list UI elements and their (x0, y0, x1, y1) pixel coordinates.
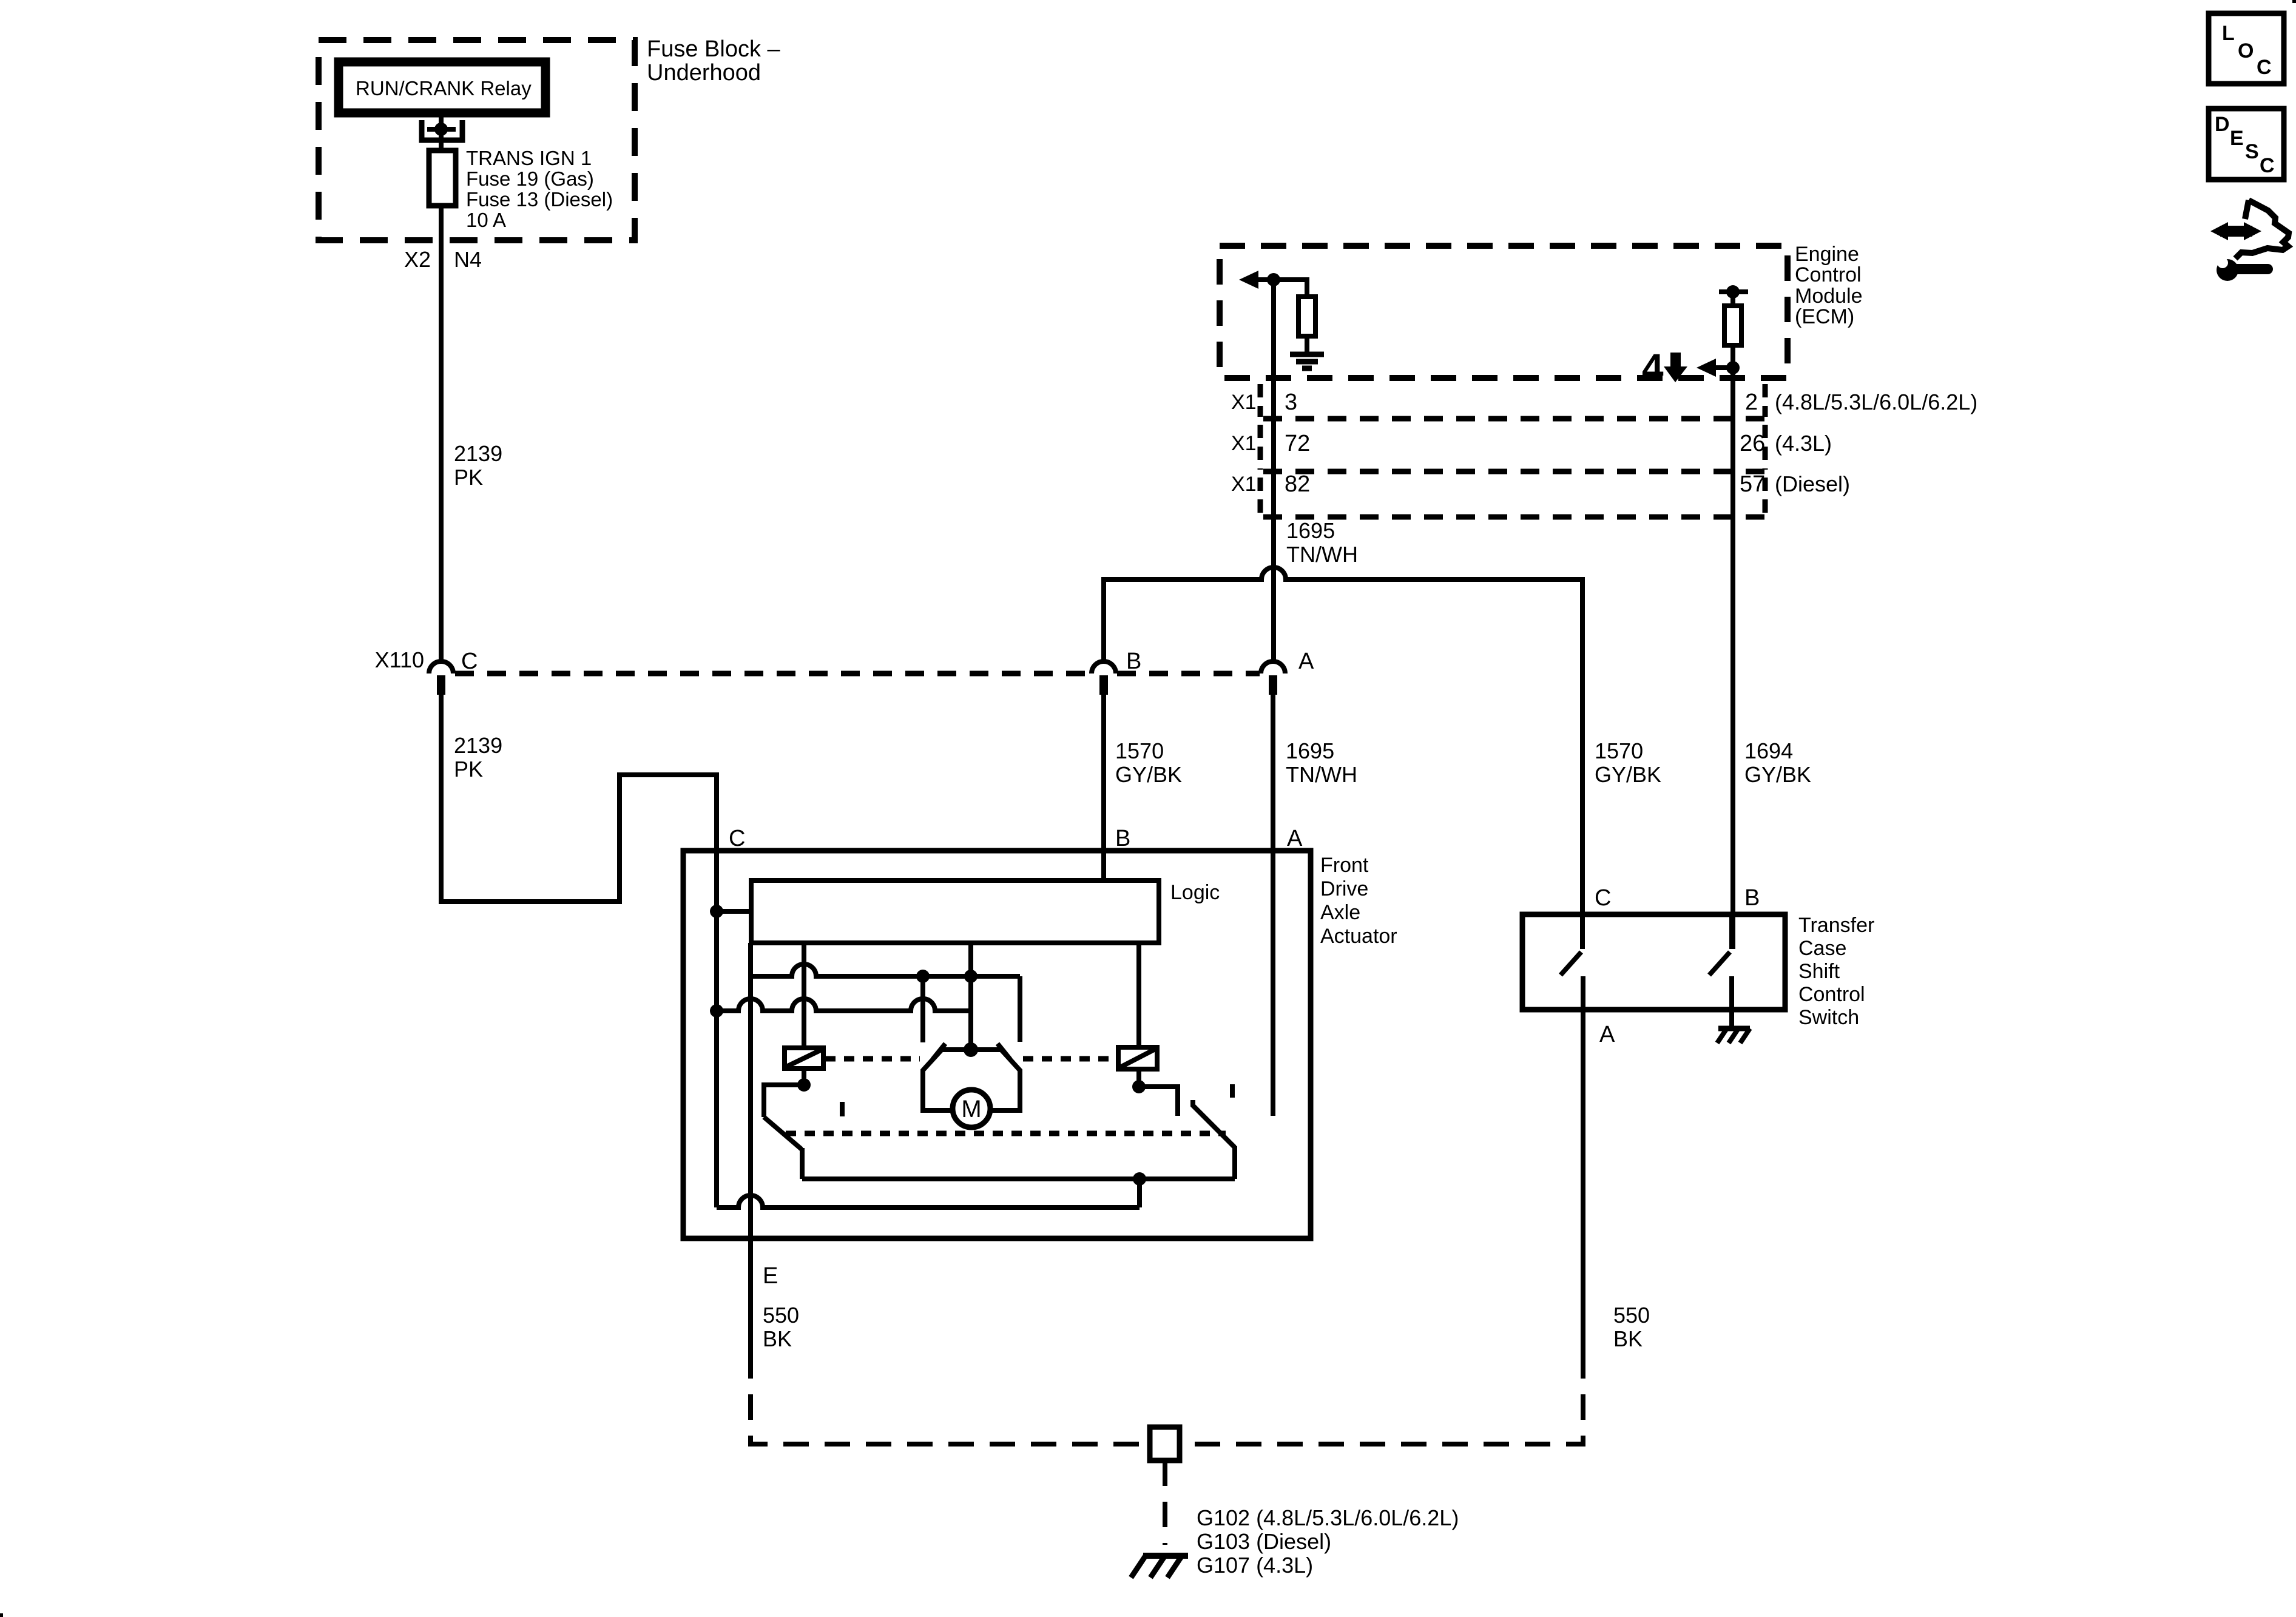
svg-text:3: 3 (1285, 390, 1297, 415)
pin row 3: X1 82 / 57 (Diesel) (1231, 471, 1850, 497)
dashed link between lower switch blades (786, 1131, 1226, 1136)
actuator pin A label (1287, 826, 1303, 851)
ECM pin row separator 2 (1263, 469, 1767, 474)
ground labels (1197, 1505, 1459, 1578)
fuse block underhood dashed box (319, 40, 635, 240)
svg-text:Transfer: Transfer (1798, 914, 1874, 937)
wire junction to internal resistor (1274, 280, 1307, 297)
svg-text:2: 2 (1745, 390, 1758, 415)
label 4 with down arrow (1642, 346, 1664, 390)
wire fuse to X110 (2139 PK) (439, 206, 444, 661)
dashed wire splice to ground (1163, 1460, 1167, 1545)
DESC legend box (2209, 109, 2284, 180)
ECM dashed box (1220, 246, 1788, 378)
LOC legend box (2209, 13, 2284, 84)
ECM pin row separator 1 (1263, 416, 1767, 422)
service icon: wrench (2217, 259, 2238, 281)
wire 1570 GY/BK: X110-B pin down to actuator pin B (1101, 695, 1106, 851)
svg-text:X1: X1 (1231, 473, 1257, 496)
connector dash ticks right column (1763, 384, 1768, 417)
relay coil left (785, 1048, 823, 1068)
transfer case pin A label (1599, 1022, 1615, 1047)
svg-text:(Diesel): (Diesel) (1775, 471, 1850, 496)
actuator pin B label (1115, 826, 1130, 851)
svg-text:C: C (461, 649, 478, 674)
node row A to motor-left contact (916, 970, 930, 983)
ECM internal left arrow (1250, 277, 1274, 282)
svg-text:PK: PK (454, 757, 483, 781)
Front Drive Axle Actuator box (683, 851, 1311, 1238)
svg-text:TN/WH: TN/WH (1286, 542, 1358, 567)
wire relay to fuse (439, 113, 444, 150)
svg-text:A: A (1287, 826, 1303, 851)
svg-text:Shift: Shift (1798, 960, 1840, 983)
node rail to C feed (1133, 1172, 1146, 1186)
wire label 1570 GY/BK (right, at transfer case drop) (1595, 738, 1661, 787)
transfer case pin B label (1744, 885, 1760, 911)
node right relay contact (1132, 1080, 1146, 1093)
svg-text:Fuse 13 (Diesel): Fuse 13 (Diesel) (466, 188, 613, 211)
node C to logic stub (710, 905, 723, 918)
wire junction to right resistor (1730, 292, 1735, 306)
svg-text:Fuse Block –: Fuse Block – (647, 36, 781, 62)
wire logic center to motor common bar (968, 943, 973, 1050)
node motor common (964, 1042, 978, 1057)
wire 550 BK from transfer case pin A (1613, 1303, 1650, 1351)
fuse block label (647, 36, 781, 86)
node: ECM left junction (1267, 273, 1280, 286)
svg-text:GY/BK: GY/BK (1115, 762, 1182, 787)
svg-text:(ECM): (ECM) (1795, 305, 1854, 328)
svg-text:Control: Control (1795, 263, 1862, 286)
svg-text:N4: N4 (454, 247, 482, 272)
switch B blade (1709, 952, 1730, 975)
svg-text:O: O (2238, 39, 2254, 62)
svg-text:Front: Front (1320, 854, 1369, 877)
right relay switch: coil to node (1136, 1069, 1141, 1087)
svg-text:Actuator: Actuator (1320, 925, 1397, 948)
wire rail down to C horizontal (1137, 1179, 1142, 1207)
wire 1694 GY/BK: ECM pin 2 down to transfer case B (1730, 368, 1735, 949)
switch B lower terminal to chassis ground (1729, 976, 1734, 1027)
svg-text:BK: BK (763, 1326, 792, 1351)
svg-text:S: S (2245, 140, 2259, 163)
wire logic to left relay coil (802, 943, 806, 1048)
svg-text:Axle: Axle (1320, 901, 1360, 924)
svg-text:D: D (2215, 113, 2230, 136)
connector X110 terminal C arc (429, 661, 453, 673)
svg-text:TN/WH: TN/WH (1286, 762, 1357, 787)
motor feed loop left (923, 1050, 953, 1110)
svg-text:E: E (2230, 127, 2244, 150)
relay coil right (1118, 1047, 1157, 1069)
chassis ground at transfer case (1718, 1026, 1750, 1031)
svg-text:TRANS IGN 1: TRANS IGN 1 (466, 147, 592, 169)
svg-text:(4.8L/5.3L/6.0L/6.2L): (4.8L/5.3L/6.0L/6.2L) (1775, 390, 1977, 414)
wire resistor down to arrow node (1730, 345, 1735, 368)
svg-text:Engine: Engine (1795, 243, 1859, 266)
chassis ground G102/G103/G107 (1143, 1553, 1188, 1559)
wire C node to logic left edge (717, 909, 751, 914)
wire 550 BK from pin E (748, 1238, 753, 1364)
left relay blade (closed) (764, 1117, 802, 1149)
left relay fixed contact elbow (764, 1085, 804, 1117)
svg-text:72: 72 (1285, 431, 1310, 456)
dashed actuation link motor switch to right coil (1023, 1056, 1116, 1062)
svg-text:Control: Control (1798, 983, 1865, 1006)
svg-text:Fuse 19 (Gas): Fuse 19 (Gas) (466, 167, 594, 190)
wire logic to right relay coil (1136, 943, 1141, 1047)
svg-text:Logic: Logic (1170, 881, 1220, 904)
Transfer Case Shift Control Switch box (1522, 914, 1785, 1010)
transfer case pin C label (1595, 885, 1611, 911)
svg-text:G103 (Diesel): G103 (Diesel) (1197, 1529, 1331, 1554)
node: ECM right junction top (1719, 289, 1748, 294)
service icon: component outline (2245, 200, 2249, 219)
svg-text:G107 (4.3L): G107 (4.3L) (1197, 1553, 1313, 1578)
actuator pin E label (763, 1263, 778, 1289)
switch common rail (802, 1176, 1235, 1181)
page corner mark top right (2292, 0, 2296, 3)
right relay blade drop to rail (1232, 1146, 1237, 1179)
svg-text:E: E (763, 1263, 778, 1289)
svg-text:PK: PK (454, 465, 483, 490)
wire row B (C net) with hops (717, 999, 971, 1011)
svg-text:A: A (1298, 649, 1314, 674)
fuse TRANS IGN 1 (Fuse 19 Gas / Fuse 13 Diesel, 10 A) (429, 150, 456, 206)
svg-text:B: B (1115, 826, 1130, 851)
ECM pin row bottom edge (1263, 515, 1767, 520)
wire E net: logic bottom down left inner side to pin E (748, 943, 753, 1238)
motor feed loop right (990, 1050, 1020, 1110)
svg-text:2139: 2139 (454, 441, 502, 466)
svg-text:26: 26 (1740, 431, 1765, 456)
svg-text:1695: 1695 (1286, 518, 1335, 543)
wire label 2139 PK (upper) (454, 441, 502, 490)
motor M (953, 1090, 990, 1127)
svg-text:GY/BK: GY/BK (1744, 762, 1811, 787)
svg-text:4: 4 (1642, 346, 1664, 390)
svg-text:C: C (1595, 885, 1611, 911)
resistor ECM internal left (1298, 297, 1315, 336)
svg-text:C: C (2257, 56, 2272, 79)
svg-text:B: B (1126, 649, 1141, 674)
svg-text:X110: X110 (375, 647, 424, 672)
logic box (751, 880, 1159, 943)
page corner mark bottom left (0, 1613, 3, 1617)
svg-text:550: 550 (763, 1303, 799, 1328)
resistor ECM internal right (1724, 306, 1741, 345)
wire C inside actuator (down left side) (714, 851, 719, 1207)
svg-text:82: 82 (1285, 471, 1310, 497)
ground (earth) inside ECM (1290, 352, 1324, 357)
connector X110 terminal A arc (1261, 661, 1285, 673)
svg-text:B: B (1744, 885, 1760, 911)
ECM label (1795, 243, 1863, 328)
motor switch blade left (933, 1044, 945, 1059)
left alternate contact tick (840, 1102, 845, 1116)
svg-text:57: 57 (1740, 471, 1765, 497)
svg-text:Case: Case (1798, 937, 1846, 960)
svg-text:1695: 1695 (1286, 738, 1334, 763)
wire motor-left fixed contact (920, 976, 925, 1042)
svg-text:1570: 1570 (1115, 738, 1164, 763)
left relay switch: coil to blade (802, 1068, 806, 1085)
pin row 1: X1 3 / 2 (4.8L/5.3L/6.0L/6.2L) (1231, 390, 1977, 415)
motor common bar (942, 1047, 1001, 1052)
node: ECM right junction bottom (1726, 361, 1740, 374)
svg-text:X1: X1 (1231, 391, 1257, 414)
svg-text:1570: 1570 (1595, 738, 1643, 763)
wire 550 BK dashed from switch to ground splice (1180, 1364, 1583, 1444)
wire row A (E net) with hop over coil wire (751, 964, 1020, 976)
node left relay contact (797, 1078, 811, 1092)
connector X2 / N4 labels (404, 247, 482, 272)
wire 1695 TN/WH: X110-A pin down to actuator pin A (1271, 695, 1275, 851)
wire 550 BK dashed to ground splice (751, 1364, 1150, 1444)
pin row 2: X1 72 / 26 (4.3L) (1231, 431, 1832, 456)
node row A to logic center wire (964, 970, 977, 983)
relay RUN/CRANK Relay (339, 62, 545, 113)
svg-text:1694: 1694 (1744, 738, 1793, 763)
svg-text:X1: X1 (1231, 432, 1257, 455)
ground splice junction box (1150, 1427, 1180, 1460)
svg-text:BK: BK (1613, 1326, 1643, 1351)
motor switch blade right (998, 1044, 1010, 1059)
right alternate contact tick (1230, 1084, 1235, 1098)
right relay blade (open) (1193, 1100, 1235, 1147)
connector X110 dashed line (455, 671, 1090, 677)
actuator label (1320, 854, 1397, 948)
left relay blade drop to rail (800, 1148, 805, 1179)
wire 1695 TN/WH: ECM X1-3 down through X110-A (1271, 280, 1276, 661)
wire motor-right fixed contact (1018, 976, 1022, 1042)
wire resistor to ground (1305, 336, 1309, 352)
wire B pin into logic (1101, 851, 1106, 880)
switch C lower terminal to pin A (1581, 976, 1585, 1364)
svg-text:C: C (2260, 154, 2275, 177)
connector dash ticks left X1 column (1258, 384, 1263, 417)
svg-text:GY/BK: GY/BK (1595, 762, 1661, 787)
svg-text:Switch: Switch (1798, 1006, 1859, 1029)
dashed actuation link left coil to motor switch (825, 1056, 920, 1062)
svg-text:M: M (961, 1096, 981, 1122)
node C at row B (710, 1004, 723, 1018)
wire 1570 GY/BK: X110-B up and over to transfer case C (1104, 567, 1582, 949)
wire C horizontal with hop over E wire (717, 1195, 1140, 1207)
wire A pin stub inside actuator (1271, 851, 1275, 1116)
right relay fixed contact elbow (1139, 1087, 1178, 1116)
connector X110 terminal B arc (1092, 661, 1116, 673)
svg-text:C: C (729, 826, 745, 851)
switch C blade (1561, 952, 1581, 975)
svg-text:10 A: 10 A (466, 209, 506, 231)
svg-text:2139: 2139 (454, 733, 502, 758)
svg-text:RUN/CRANK Relay: RUN/CRANK Relay (356, 77, 532, 100)
wire 2139 PK lower: X110-C to actuator pin C (441, 695, 717, 902)
svg-text:A: A (1599, 1022, 1615, 1047)
actuator pin C label (729, 826, 745, 851)
switch B wire into box (1729, 914, 1734, 949)
svg-text:Underhood: Underhood (647, 60, 761, 86)
wire label 1570 GY/BK (left, below X110-B) (1115, 738, 1182, 787)
svg-text:G102 (4.8L/5.3L/6.0L/6.2L): G102 (4.8L/5.3L/6.0L/6.2L) (1197, 1505, 1459, 1530)
svg-text:550: 550 (1613, 1303, 1650, 1328)
service icon: double arrow (2220, 226, 2252, 237)
connector terminal bracket under relay (422, 120, 462, 140)
svg-text:Module: Module (1795, 285, 1863, 308)
svg-text:L: L (2222, 22, 2235, 45)
svg-text:X2: X2 (404, 247, 431, 272)
ECM internal arrow pointing at node (1710, 365, 1733, 370)
svg-text:(4.3L): (4.3L) (1775, 431, 1832, 456)
svg-text:Drive: Drive (1320, 877, 1368, 900)
connector X110 label (375, 647, 424, 672)
